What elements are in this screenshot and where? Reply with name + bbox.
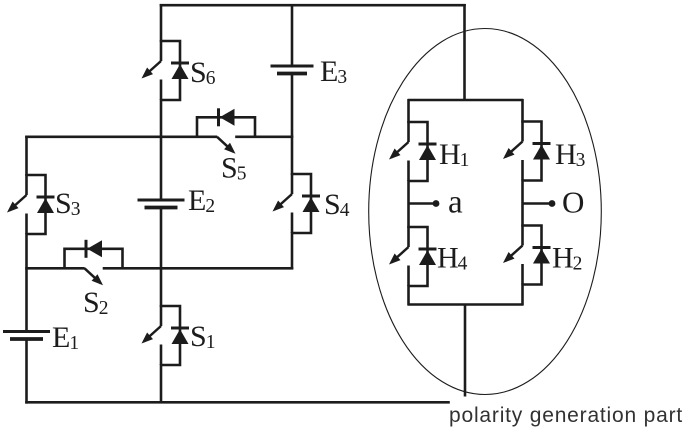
wire H-bridge right leg middle	[521, 180, 524, 227]
label S5	[221, 152, 246, 185]
label E1	[52, 321, 79, 354]
wire E1 to bottom rail	[25, 339, 28, 404]
svg-text:S3: S3	[55, 187, 80, 220]
wire H-bridge bottom lead	[464, 304, 467, 397]
wire S4 to node line B	[291, 232, 294, 269]
wire top rail to H-bridge	[463, 4, 466, 101]
node O	[549, 200, 556, 207]
wire H-bridge left leg top	[407, 99, 410, 123]
label E3	[320, 55, 347, 88]
wire H-bridge bottom edge	[408, 303, 524, 306]
wire top rail to E3	[291, 4, 294, 67]
switch H3	[503, 121, 551, 181]
label S6	[190, 56, 216, 89]
wire left rail upper (node line A to S3)	[25, 136, 28, 176]
svg-text:S4: S4	[324, 188, 350, 221]
label O	[562, 185, 584, 220]
switch S3	[7, 174, 55, 234]
label S4	[324, 188, 350, 221]
svg-text:O: O	[562, 185, 584, 220]
wire H-bridge left leg middle	[407, 180, 410, 228]
label H2	[552, 242, 582, 275]
wire E3 to S4	[291, 74, 294, 176]
battery E1	[3, 332, 50, 340]
switch S6	[142, 40, 190, 100]
wire E2 to node line B	[160, 208, 163, 270]
svg-text:S5: S5	[221, 152, 246, 185]
switch H4	[389, 226, 437, 286]
switch S4	[273, 173, 321, 233]
wire H-bridge right leg bottom	[521, 284, 524, 306]
wire H-bridge right leg top	[521, 99, 524, 123]
switch S1	[142, 305, 190, 365]
label S1	[190, 320, 215, 353]
svg-text:S1: S1	[190, 320, 215, 353]
switch H1	[389, 121, 437, 181]
node O stub	[523, 202, 551, 205]
label a	[448, 185, 463, 221]
svg-text:H1: H1	[439, 138, 469, 171]
label S3	[55, 187, 80, 220]
wire H-bridge top edge	[408, 99, 524, 102]
battery E3	[271, 66, 314, 74]
svg-text:E1: E1	[52, 321, 79, 354]
wire node line A right segment	[235, 136, 293, 139]
label S2	[83, 286, 108, 319]
label polarity generation part	[449, 404, 683, 427]
svg-text:E3: E3	[320, 55, 347, 88]
switch S5	[197, 108, 255, 154]
battery E2	[138, 200, 185, 208]
svg-text:polarity generation part: polarity generation part	[449, 404, 683, 427]
svg-text:H2: H2	[552, 242, 582, 275]
wire top rail	[160, 4, 466, 7]
svg-text:E2: E2	[188, 184, 215, 217]
node a	[433, 200, 440, 207]
wire node line A left segment	[25, 136, 217, 139]
node a stub	[409, 202, 435, 205]
svg-text:S2: S2	[83, 286, 108, 319]
svg-text:H3: H3	[555, 138, 585, 171]
wire S1 to bottom rail	[160, 364, 163, 403]
wire node line B left segment	[25, 267, 84, 270]
label E2	[188, 184, 215, 217]
wire node line B right segment	[103, 267, 294, 270]
svg-text:S6: S6	[190, 56, 216, 89]
switch S2	[65, 240, 123, 285]
wire node line B to S1	[160, 268, 163, 307]
wire left column upper (top rail to S6)	[160, 4, 163, 42]
wire bottom rail	[25, 401, 450, 404]
switch H2	[503, 225, 551, 285]
ellipse polarity generation part boundary	[369, 29, 602, 395]
label H1	[439, 138, 469, 171]
label H3	[555, 138, 585, 171]
label H4	[437, 242, 468, 275]
wire S6 to E2	[160, 99, 163, 200]
svg-text:H4: H4	[437, 242, 468, 275]
wire S3 to E1	[25, 233, 28, 332]
svg-text:a: a	[448, 185, 463, 221]
wire H-bridge left leg bottom	[407, 285, 410, 306]
